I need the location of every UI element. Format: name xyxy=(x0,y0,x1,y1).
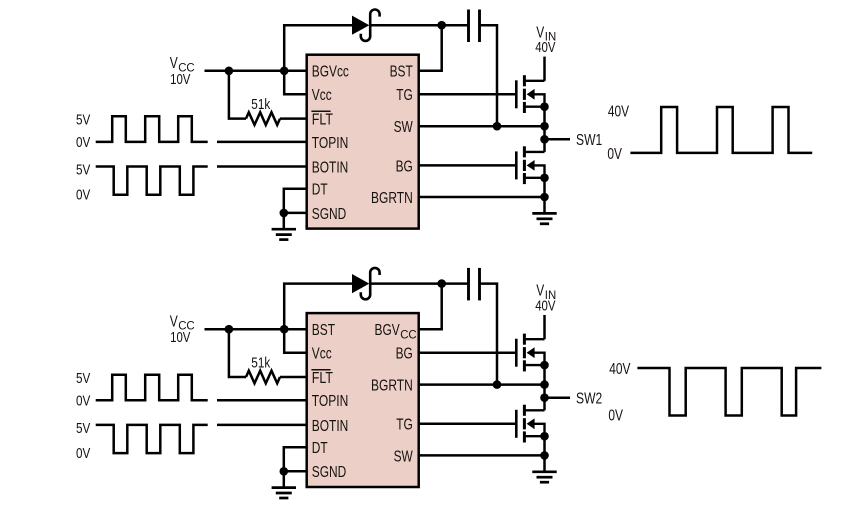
wire BST pin up to rail xyxy=(419,25,442,71)
svg-text:0V: 0V xyxy=(607,146,622,163)
node: switch-node junction xyxy=(540,122,549,131)
wire TG pin to high-side gate xyxy=(419,93,517,96)
wire BGRTN pin to low-side source xyxy=(419,196,545,199)
wire high-side source down to switch node xyxy=(543,365,546,385)
wire to TOPIN pin xyxy=(217,141,307,144)
channel segments xyxy=(523,75,526,86)
wire SW pin to low-side source xyxy=(419,454,545,457)
wire low-side source down to power ground xyxy=(543,436,546,472)
svg-text:SGND: SGND xyxy=(312,464,347,481)
wire BG pin to low-side gate xyxy=(419,164,517,167)
wire to Vcc pin xyxy=(284,71,307,95)
node: VCC junction to resistor xyxy=(225,67,234,76)
svg-text:5V: 5V xyxy=(76,420,90,437)
svg-text:DT: DT xyxy=(312,440,328,457)
source lead xyxy=(524,435,544,437)
wire SW pin to switch node xyxy=(419,125,545,128)
svg-text:BG: BG xyxy=(396,346,413,363)
wire resistor to FLT pin xyxy=(280,376,307,379)
svg-text:SGND: SGND xyxy=(312,206,347,223)
source lead xyxy=(524,105,544,107)
svg-text:CC: CC xyxy=(400,328,417,342)
svg-text:0V: 0V xyxy=(76,187,90,204)
node: VCC junction to rail/Vcc xyxy=(280,325,289,334)
svg-text:0V: 0V xyxy=(76,134,90,151)
node: high-side source xyxy=(540,102,549,111)
gate bar xyxy=(515,80,518,108)
body arrow xyxy=(527,160,535,171)
svg-text:FLT: FLT xyxy=(312,370,333,387)
svg-text:BG: BG xyxy=(396,158,413,175)
node: SGND junction xyxy=(280,467,289,476)
svg-text:V: V xyxy=(536,283,545,300)
svg-text:BGRTN: BGRTN xyxy=(371,190,413,207)
wire capacitor to switch node xyxy=(480,284,498,385)
resistor 51k xyxy=(246,371,280,384)
svg-text:40V: 40V xyxy=(535,298,556,314)
svg-text:0V: 0V xyxy=(76,392,90,409)
node: VCC junction to rail/Vcc xyxy=(280,67,289,76)
svg-text:TOPIN: TOPIN xyxy=(312,393,349,410)
node: low-side source junction xyxy=(540,451,549,460)
wire to BOTIN pin xyxy=(217,165,307,168)
body arrow xyxy=(527,89,535,100)
drain lead xyxy=(524,338,544,340)
svg-text:0V: 0V xyxy=(608,408,623,425)
svg-text:10V: 10V xyxy=(170,72,191,88)
svg-text:V: V xyxy=(536,24,545,41)
IC driver U1 xyxy=(307,55,419,229)
svg-text:BGVcc: BGVcc xyxy=(312,64,349,81)
svg-text:V: V xyxy=(170,55,179,72)
svg-text:BST: BST xyxy=(312,322,335,339)
node: cap return junction xyxy=(493,122,502,131)
svg-text:SW2: SW2 xyxy=(576,391,602,408)
node: bootstrap rail junction xyxy=(437,21,446,30)
gate bar xyxy=(515,151,518,179)
body arrow xyxy=(527,418,535,429)
svg-text:SW: SW xyxy=(394,119,414,136)
wire bootstrap rail (left riser) xyxy=(284,25,353,71)
gate bar xyxy=(515,339,518,367)
svg-text:FLT: FLT xyxy=(312,112,333,129)
wire VCC junction down to resistor xyxy=(229,329,246,377)
wire SGND pin xyxy=(284,470,307,473)
wire to BOTIN pin xyxy=(217,424,307,427)
source lead xyxy=(524,364,544,366)
node: cap return junction xyxy=(493,380,502,389)
svg-text:BGRTN: BGRTN xyxy=(371,378,413,395)
wire BGRTN pin to switch node xyxy=(419,383,545,386)
svg-text:0V: 0V xyxy=(76,445,90,462)
wire to TOPIN pin xyxy=(217,399,307,402)
svg-text:V: V xyxy=(170,313,179,330)
Schottky bootstrap diode xyxy=(352,274,369,293)
resistor 51k xyxy=(246,112,280,125)
IC driver U2 xyxy=(307,313,419,487)
wire low-side source down to power ground xyxy=(543,178,546,214)
wire capacitor to switch node xyxy=(480,25,498,126)
source lead xyxy=(524,177,544,179)
wire high-side source down to switch node xyxy=(543,107,546,127)
gate bar xyxy=(515,410,518,438)
wire SW1 stub xyxy=(545,138,571,141)
wire bootstrap rail (left riser) xyxy=(284,284,353,330)
wire switch node down to SW2 stub and low-side drain xyxy=(543,385,546,411)
svg-text:51k: 51k xyxy=(251,96,270,113)
node SW1 xyxy=(540,135,549,144)
svg-text:5V: 5V xyxy=(76,112,90,129)
node SW2 xyxy=(540,393,549,402)
SW1 output waveform xyxy=(630,107,812,153)
drain lead xyxy=(524,409,544,411)
svg-text:Vcc: Vcc xyxy=(312,87,332,104)
ground (signal) xyxy=(272,486,296,489)
svg-text:10V: 10V xyxy=(170,330,191,346)
wire resistor to FLT pin xyxy=(280,117,307,120)
wire DT pin down to SGND xyxy=(284,447,307,471)
svg-text:TG: TG xyxy=(396,87,413,104)
drain lead xyxy=(524,151,544,153)
wire SGND to ground xyxy=(283,471,286,487)
wire BGVCC pin up to rail xyxy=(419,284,442,330)
svg-text:40V: 40V xyxy=(535,40,556,56)
SW2 output waveform xyxy=(637,368,821,416)
bootstrap capacitor xyxy=(467,10,470,43)
svg-text:SW: SW xyxy=(394,448,414,465)
node: high-side source xyxy=(540,361,549,370)
node: bootstrap rail junction xyxy=(437,279,446,288)
svg-text:5V: 5V xyxy=(76,162,90,179)
node: switch-node junction xyxy=(540,380,549,389)
drain lead xyxy=(524,80,544,82)
wire VCC to BST pin xyxy=(205,328,307,331)
BOTIN input waveform xyxy=(96,425,208,453)
svg-text:BOTIN: BOTIN xyxy=(312,418,349,435)
svg-text:40V: 40V xyxy=(609,361,631,378)
wire diode to BST node xyxy=(371,24,469,27)
svg-text:Vcc: Vcc xyxy=(312,346,332,363)
wire switch node down to SW1 stub and low-side drain xyxy=(543,126,546,152)
svg-text:TG: TG xyxy=(396,417,413,434)
wire SGND pin xyxy=(284,212,307,215)
wire TG pin to low-side gate xyxy=(419,423,517,426)
node: low-side source xyxy=(540,432,549,441)
wire VIN to high-side drain xyxy=(543,315,546,339)
ground (power) xyxy=(532,470,556,473)
wire DT pin down to SGND xyxy=(284,189,307,213)
TOPIN input waveform xyxy=(96,116,208,142)
wire SGND to ground xyxy=(283,213,286,229)
wire BG pin to high-side gate xyxy=(419,351,517,354)
svg-text:40V: 40V xyxy=(608,103,630,120)
svg-text:5V: 5V xyxy=(76,370,90,387)
Schottky bootstrap diode xyxy=(352,16,369,35)
BOTIN input waveform xyxy=(96,167,208,195)
svg-text:TOPIN: TOPIN xyxy=(312,135,349,152)
channel segments xyxy=(523,334,526,345)
wire diode to BST node xyxy=(371,282,469,285)
node: SGND junction xyxy=(280,209,289,218)
svg-text:51k: 51k xyxy=(251,354,270,371)
wire to Vcc pin xyxy=(284,329,307,353)
wire VCC to BGVcc pin xyxy=(205,70,307,73)
svg-text:BST: BST xyxy=(390,64,413,81)
wire SW2 stub xyxy=(545,396,571,399)
svg-text:DT: DT xyxy=(312,182,328,199)
channel segments xyxy=(523,146,526,157)
node: VCC junction to resistor xyxy=(225,325,234,334)
svg-text:BOTIN: BOTIN xyxy=(312,159,349,176)
bootstrap capacitor xyxy=(467,268,470,301)
svg-text:SW1: SW1 xyxy=(576,132,602,149)
wire VIN to high-side drain xyxy=(543,57,546,81)
wire VCC junction down to resistor xyxy=(229,71,246,119)
ground (signal) xyxy=(272,228,296,231)
ground (power) xyxy=(532,212,556,215)
body arrow xyxy=(527,347,535,358)
TOPIN input waveform xyxy=(96,375,208,401)
svg-text:BGV: BGV xyxy=(375,322,401,339)
node: low-side source junction xyxy=(540,193,549,202)
channel segments xyxy=(523,405,526,416)
node: low-side source xyxy=(540,174,549,183)
